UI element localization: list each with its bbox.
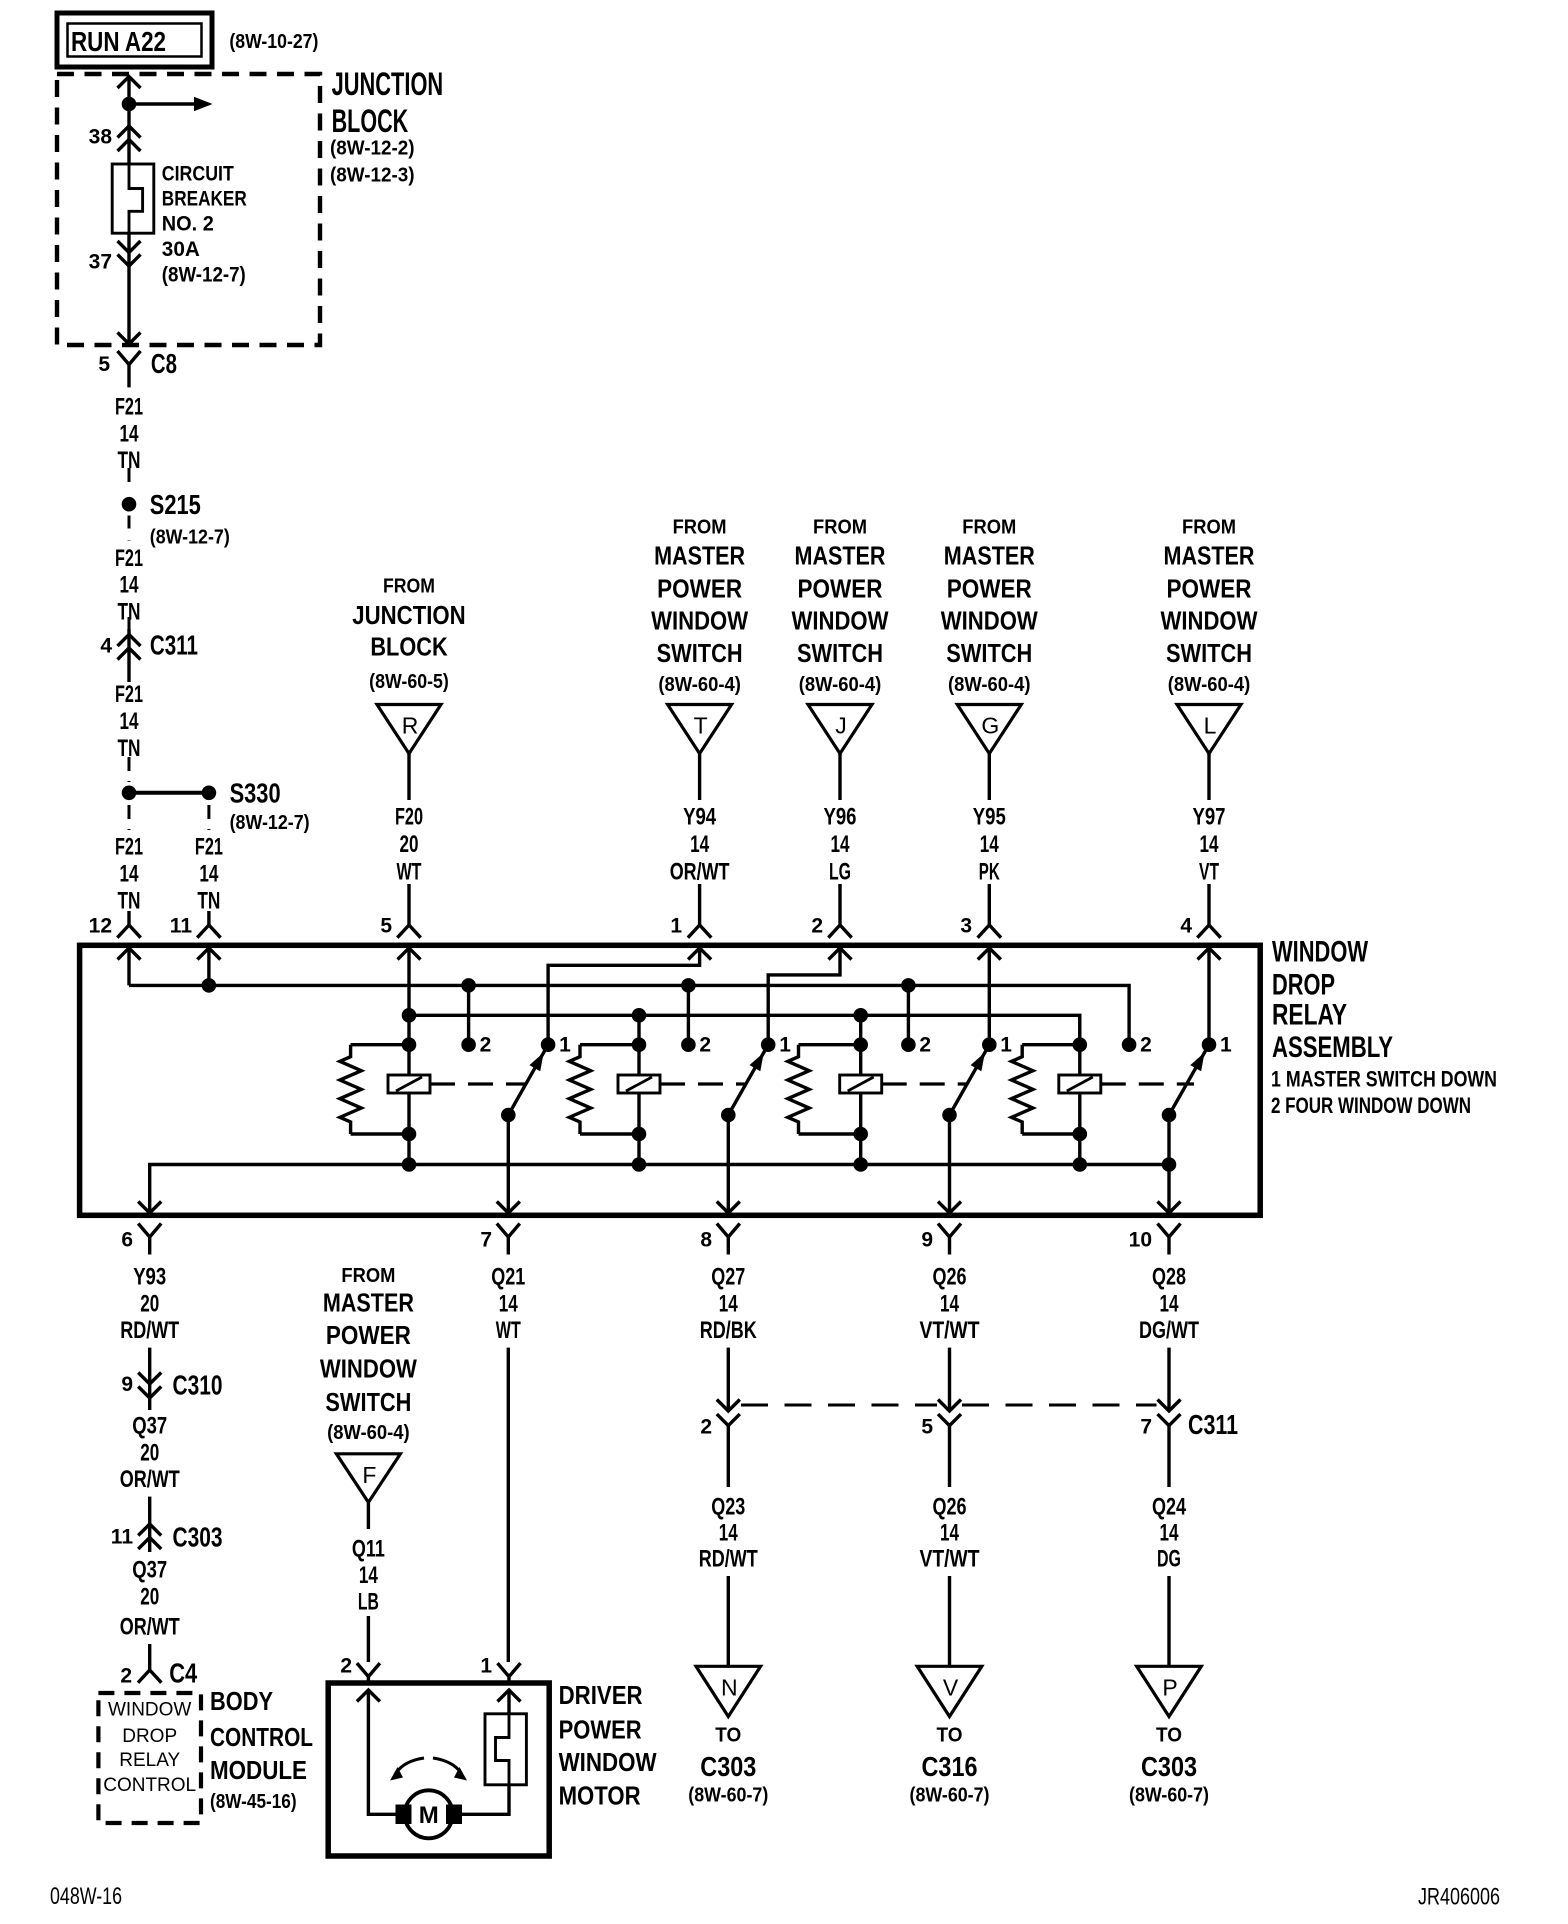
relay 4 mechanical link (dashed) <box>1101 1082 1194 1085</box>
relay box pin 9 connector at bottom edge <box>938 1224 961 1238</box>
circuit breaker CB2 box <box>112 164 154 233</box>
svg-text:C303: C303 <box>173 1522 223 1553</box>
svg-text:1: 1 <box>779 1034 791 1057</box>
wire relay 1 switch common to bottom pin <box>507 1115 510 1213</box>
resistor relay 4 coil suppression <box>1022 1043 1080 1046</box>
svg-text:14: 14 <box>120 572 139 599</box>
svg-text:2: 2 <box>340 1655 352 1678</box>
destination arrow P <box>1137 1666 1202 1716</box>
connector C311 pin 7 <box>1158 1400 1181 1412</box>
svg-text:TO: TO <box>937 1725 963 1747</box>
svg-text:Y97: Y97 <box>1193 804 1226 831</box>
svg-text:14: 14 <box>359 1562 378 1589</box>
svg-text:14: 14 <box>199 861 218 888</box>
svg-text:1: 1 <box>559 1034 571 1057</box>
svg-text:7: 7 <box>1140 1416 1152 1439</box>
relay 2 switch arm <box>728 1045 768 1115</box>
svg-text:TN: TN <box>118 888 141 915</box>
body control module window drop relay control box (dashed) <box>98 1693 201 1823</box>
relay 3 mechanical link (dashed) <box>882 1082 968 1085</box>
svg-text:14: 14 <box>120 420 139 447</box>
svg-text:VT/WT: VT/WT <box>920 1546 980 1573</box>
resistor relay 1 coil suppression <box>351 1043 409 1046</box>
svg-text:WINDOW: WINDOW <box>792 606 889 636</box>
svg-text:OR/WT: OR/WT <box>120 1614 180 1641</box>
svg-text:(8W-60-4): (8W-60-4) <box>658 674 741 696</box>
svg-text:RD/BK: RD/BK <box>700 1317 757 1344</box>
wire relay 4 switch common to bottom pin <box>1167 1115 1170 1213</box>
svg-text:PK: PK <box>979 859 1000 886</box>
bus B horizontal (coil feed from pin 5) <box>409 1015 1080 1044</box>
svg-text:C316: C316 <box>922 1751 978 1782</box>
svg-text:(8W-60-5): (8W-60-5) <box>369 671 449 693</box>
junction dot relay 3 coil bottom <box>853 1127 868 1142</box>
resistor relay 2 coil suppression <box>580 1043 639 1046</box>
relay box pin 7 connector at bottom edge <box>497 1224 520 1238</box>
source arrow R triangle <box>377 705 441 754</box>
svg-text:MASTER: MASTER <box>1164 541 1255 571</box>
svg-text:2: 2 <box>120 1665 132 1688</box>
bus D horizontal (coil common) <box>150 1165 1169 1214</box>
destination arrow V <box>917 1666 982 1716</box>
connector C8 <box>118 351 141 365</box>
svg-text:2: 2 <box>700 1416 712 1439</box>
junction dot bus A stub relay 1 terminal 2 <box>461 978 476 993</box>
junction dot inside junction block <box>122 97 137 112</box>
relay box pin 11 connector at top edge <box>197 925 220 938</box>
junction dot relay 3 on bus D <box>853 1157 868 1172</box>
svg-text:5: 5 <box>380 915 392 938</box>
wire F21 14 TN from S215 to C311 <box>128 516 131 542</box>
relay 1 switch arm <box>508 1045 548 1115</box>
relay 1 switch common dot <box>501 1108 516 1123</box>
svg-text:RELAY: RELAY <box>119 1750 180 1771</box>
svg-text:WINDOW: WINDOW <box>1272 936 1368 969</box>
relay 4 coil box <box>1059 1075 1101 1093</box>
svg-text:BODY: BODY <box>210 1686 273 1716</box>
svg-text:Q28: Q28 <box>1152 1264 1186 1291</box>
svg-text:JUNCTION: JUNCTION <box>332 66 444 102</box>
relay 1 terminal 1 dot <box>541 1037 556 1052</box>
svg-text:(8W-12-7): (8W-12-7) <box>150 527 230 549</box>
svg-text:3: 3 <box>960 915 972 938</box>
wire F21 14 TN from S330 to pin 12 <box>128 805 131 830</box>
svg-text:S330: S330 <box>230 777 281 808</box>
relay box pin 8 connector at bottom edge <box>717 1224 740 1238</box>
svg-text:FROM: FROM <box>962 517 1016 539</box>
svg-text:BREAKER: BREAKER <box>162 188 247 211</box>
destination arrow N <box>696 1666 761 1716</box>
svg-text:POWER: POWER <box>1167 574 1252 604</box>
svg-text:38: 38 <box>89 126 113 149</box>
svg-text:CIRCUIT: CIRCUIT <box>162 163 234 186</box>
relay 2 mechanical link (dashed) <box>660 1082 747 1085</box>
junction dot bus B relay 3 <box>853 1008 868 1023</box>
svg-text:20: 20 <box>400 831 419 858</box>
svg-text:(8W-12-7): (8W-12-7) <box>230 812 310 834</box>
svg-text:14: 14 <box>1200 831 1219 858</box>
source arrow G triangle <box>957 705 1021 754</box>
relay 3 switch common dot <box>942 1108 957 1123</box>
svg-text:(8W-12-2): (8W-12-2) <box>330 137 415 159</box>
resistor relay 3 coil suppression <box>799 1043 861 1046</box>
junction dot bus B relay 1 (pin 5) <box>402 1008 417 1023</box>
relay box pin 4 connector at top edge <box>1197 925 1220 938</box>
svg-text:2: 2 <box>1140 1034 1152 1057</box>
junction dot bus D end at pin 10 wire <box>1162 1157 1177 1172</box>
wire relay 3 coil feed from bus B <box>859 1015 862 1164</box>
svg-text:F21: F21 <box>195 834 223 861</box>
bus A horizontal (battery feed) <box>129 985 1129 1044</box>
wire F20 20 WT from R to pin 5 <box>407 754 410 800</box>
splice S215 <box>122 497 137 512</box>
svg-text:5: 5 <box>98 353 110 376</box>
svg-text:LG: LG <box>829 859 851 886</box>
svg-text:RELAY: RELAY <box>1272 999 1347 1032</box>
svg-text:MASTER: MASTER <box>795 541 886 571</box>
svg-text:Y96: Y96 <box>824 804 857 831</box>
svg-text:P: P <box>1162 1674 1177 1700</box>
svg-text:C311: C311 <box>150 630 198 661</box>
junction dot relay 1 coil top <box>402 1037 417 1052</box>
svg-text:MASTER: MASTER <box>323 1287 414 1317</box>
svg-text:J: J <box>835 713 847 739</box>
svg-text:WT: WT <box>496 1317 521 1344</box>
relay 3 terminal 2 dot <box>901 1037 916 1052</box>
relay box pin 10 connector at bottom edge <box>1158 1224 1181 1238</box>
driver power window motor box <box>328 1683 549 1856</box>
svg-text:5: 5 <box>921 1416 933 1439</box>
junction dot relay 1 on bus D <box>402 1157 417 1172</box>
svg-text:Y93: Y93 <box>133 1264 166 1291</box>
source arrow L triangle <box>1177 705 1241 754</box>
junction dot relay 3 coil top <box>853 1037 868 1052</box>
svg-text:F21: F21 <box>115 545 143 572</box>
svg-text:1: 1 <box>1220 1034 1232 1057</box>
wire Q11 14 LB from F to motor pin 2 <box>367 1502 370 1529</box>
svg-text:BLOCK: BLOCK <box>332 103 409 139</box>
node RUN A22 fuse feed box <box>57 13 212 67</box>
svg-text:11: 11 <box>111 1526 134 1549</box>
relay 2 switch common dot <box>721 1108 736 1123</box>
junction dot bus B relay 2 <box>632 1008 647 1023</box>
svg-text:Q26: Q26 <box>933 1264 967 1291</box>
svg-text:(8W-60-4): (8W-60-4) <box>327 1422 410 1444</box>
relay 2 coil box <box>618 1075 660 1093</box>
svg-text:RUN A22: RUN A22 <box>71 26 166 57</box>
svg-text:(8W-12-7): (8W-12-7) <box>162 264 246 287</box>
svg-text:1: 1 <box>480 1655 492 1678</box>
svg-text:1: 1 <box>670 915 682 938</box>
relay 3 coil box <box>840 1075 882 1093</box>
svg-text:Q37: Q37 <box>132 1413 167 1440</box>
svg-text:(8W-60-7): (8W-60-7) <box>688 1784 768 1806</box>
wire pin 11 stem <box>207 948 210 985</box>
svg-text:(8W-60-7): (8W-60-7) <box>1129 1784 1209 1806</box>
source arrow F triangle <box>336 1454 400 1503</box>
wire relay 2 switch common to bottom pin <box>727 1115 730 1213</box>
junction dot bus A stub relay 2 terminal 2 <box>681 978 696 993</box>
relay 2 terminal 2 dot <box>681 1037 696 1052</box>
svg-text:2: 2 <box>919 1034 931 1057</box>
relay 1 coil box <box>388 1075 430 1093</box>
circuit breaker CB2 element <box>129 164 143 233</box>
svg-text:4: 4 <box>1180 915 1192 938</box>
connector C311 pin 2 <box>717 1400 740 1412</box>
connector C4 pin 2 <box>138 1670 161 1683</box>
wire Y97 14 VT from L to relay box <box>1207 754 1210 800</box>
motor M symbol <box>405 1790 453 1838</box>
junction dot relay 4 on bus D <box>1073 1157 1088 1172</box>
svg-text:(8W-60-4): (8W-60-4) <box>1168 674 1251 696</box>
junction dot relay 2 on bus D <box>632 1157 647 1172</box>
connector 37 double chevron <box>118 241 141 253</box>
svg-text:VT: VT <box>1199 859 1219 886</box>
svg-text:TO: TO <box>1156 1725 1182 1747</box>
source arrow J triangle <box>808 705 872 754</box>
svg-text:14: 14 <box>980 831 999 858</box>
svg-text:NO. 2: NO. 2 <box>162 213 214 236</box>
relay box pin 3 connector at top edge <box>978 925 1001 938</box>
relay 3 terminal 1 dot <box>982 1037 997 1052</box>
svg-text:C310: C310 <box>173 1370 223 1401</box>
svg-text:M: M <box>419 1802 439 1829</box>
svg-text:6: 6 <box>121 1229 133 1252</box>
svg-text:WINDOW: WINDOW <box>941 606 1038 636</box>
junction dot relay 4 coil bottom <box>1073 1127 1088 1142</box>
svg-text:TO: TO <box>715 1725 741 1747</box>
svg-text:2: 2 <box>699 1034 711 1057</box>
svg-text:DG/WT: DG/WT <box>1139 1317 1199 1344</box>
relay box pin 5 connector at top edge <box>397 925 420 938</box>
svg-text:F21: F21 <box>115 681 143 708</box>
junction block boundary (dashed) <box>57 74 320 345</box>
svg-text:37: 37 <box>89 251 112 274</box>
svg-text:Q21: Q21 <box>491 1264 525 1291</box>
svg-text:FROM: FROM <box>813 517 867 539</box>
connector chevron at junction block top edge <box>118 77 141 89</box>
svg-text:9: 9 <box>921 1229 933 1252</box>
svg-text:DRIVER: DRIVER <box>559 1680 643 1710</box>
svg-text:20: 20 <box>140 1439 159 1466</box>
wire circuit breaker to C8 <box>127 233 130 344</box>
svg-text:F20: F20 <box>395 804 423 831</box>
motor thermal breaker box <box>485 1714 526 1785</box>
svg-text:SWITCH: SWITCH <box>797 638 883 668</box>
svg-text:2: 2 <box>480 1034 492 1057</box>
svg-text:14: 14 <box>1160 1520 1179 1547</box>
svg-text:Y95: Y95 <box>973 804 1006 831</box>
svg-text:SWITCH: SWITCH <box>325 1387 411 1417</box>
svg-text:1 MASTER SWITCH DOWN: 1 MASTER SWITCH DOWN <box>1271 1067 1497 1092</box>
svg-text:WINDOW: WINDOW <box>320 1353 417 1383</box>
svg-text:Y94: Y94 <box>683 804 717 831</box>
connector C311 pin 5 <box>938 1400 961 1412</box>
svg-text:14: 14 <box>940 1520 959 1547</box>
svg-text:POWER: POWER <box>657 574 742 604</box>
svg-text:T: T <box>694 713 708 739</box>
connector 38 double chevron <box>118 126 141 138</box>
svg-text:(8W-10-27): (8W-10-27) <box>229 31 318 53</box>
svg-text:F21: F21 <box>115 834 143 861</box>
svg-text:OR/WT: OR/WT <box>120 1466 180 1493</box>
wire relay 4 coil feed from bus B <box>1078 1015 1081 1164</box>
svg-text:R: R <box>402 713 419 739</box>
svg-text:MASTER: MASTER <box>944 541 1035 571</box>
svg-text:RD/WT: RD/WT <box>120 1317 179 1344</box>
wire pin 4 feed to relay 4 terminal 1 <box>1207 948 1210 1045</box>
relay 1 mechanical link (dashed) <box>430 1082 527 1085</box>
relay 2 terminal 1 dot <box>761 1037 776 1052</box>
relay box pin 12 connector at top edge <box>117 925 140 938</box>
wire pin 2 feed to relay 2 terminal 1 <box>768 948 840 1045</box>
svg-text:POWER: POWER <box>798 574 883 604</box>
svg-text:CONTROL: CONTROL <box>103 1775 196 1796</box>
relay 4 switch common dot <box>1162 1108 1177 1123</box>
relay 1 terminal 2 dot <box>461 1037 476 1052</box>
svg-text:20: 20 <box>140 1291 159 1318</box>
junction dot pin 11 on bus A <box>202 978 217 993</box>
svg-text:WINDOW: WINDOW <box>108 1699 191 1720</box>
chevron pin 6 at bottom edge <box>138 1202 161 1214</box>
motor rotation arrows <box>396 1758 424 1773</box>
wire relay 2 coil feed from bus B <box>637 1015 640 1164</box>
svg-text:7: 7 <box>480 1229 492 1252</box>
wire pin 1 feed to relay 1 terminal 1 <box>548 948 700 1045</box>
svg-text:Q23: Q23 <box>711 1494 745 1521</box>
svg-text:(8W-60-7): (8W-60-7) <box>910 1784 990 1806</box>
svg-text:14: 14 <box>940 1291 959 1318</box>
svg-text:WINDOW: WINDOW <box>651 606 748 636</box>
svg-text:12: 12 <box>89 915 112 938</box>
svg-text:C303: C303 <box>1141 1751 1197 1782</box>
wire pin 12 stem to bus A <box>127 948 130 985</box>
junction dot relay 1 coil bottom <box>402 1127 417 1142</box>
svg-text:Q26: Q26 <box>933 1494 967 1521</box>
junction dot relay 2 coil top <box>632 1037 647 1052</box>
splice S330 <box>122 786 137 801</box>
svg-text:1: 1 <box>1000 1034 1012 1057</box>
svg-text:MOTOR: MOTOR <box>559 1781 641 1811</box>
svg-text:30A: 30A <box>162 238 200 261</box>
svg-text:C8: C8 <box>151 348 177 379</box>
svg-text:DG: DG <box>1157 1546 1181 1573</box>
source arrow T triangle <box>668 705 732 754</box>
wire pin 3 feed to relay 3 terminal 1 <box>988 948 991 1045</box>
relay 4 terminal 2 dot <box>1122 1037 1137 1052</box>
motor pin 2 connector <box>357 1663 380 1677</box>
svg-text:ASSEMBLY: ASSEMBLY <box>1272 1031 1393 1064</box>
svg-text:JUNCTION: JUNCTION <box>352 600 465 630</box>
wire F21 14 TN from S330 to pin 11 <box>207 805 210 830</box>
svg-text:S215: S215 <box>150 489 201 520</box>
svg-text:FROM: FROM <box>383 576 435 598</box>
svg-text:LB: LB <box>358 1589 379 1616</box>
svg-text:FROM: FROM <box>673 517 727 539</box>
svg-text:MASTER: MASTER <box>654 541 745 571</box>
svg-text:SWITCH: SWITCH <box>657 638 743 668</box>
svg-text:VT/WT: VT/WT <box>920 1317 980 1344</box>
svg-text:2: 2 <box>811 915 823 938</box>
svg-text:POWER: POWER <box>326 1320 411 1350</box>
relay box pin 2 connector at top edge <box>828 925 851 938</box>
svg-text:10: 10 <box>1129 1229 1152 1252</box>
svg-text:DROP: DROP <box>1272 969 1335 1002</box>
svg-text:FROM: FROM <box>1182 517 1236 539</box>
svg-text:14: 14 <box>120 861 139 888</box>
svg-text:F21: F21 <box>115 394 143 421</box>
svg-text:TN: TN <box>197 888 220 915</box>
relay box pin 1 connector at top edge <box>688 925 711 938</box>
svg-text:WINDOW: WINDOW <box>559 1747 657 1777</box>
svg-text:8: 8 <box>700 1229 712 1252</box>
svg-text:14: 14 <box>719 1291 738 1318</box>
svg-text:C4: C4 <box>169 1658 197 1689</box>
svg-text:14: 14 <box>499 1291 518 1318</box>
svg-text:11: 11 <box>170 915 193 938</box>
svg-text:OR/WT: OR/WT <box>670 859 730 886</box>
wire Y95 14 PK from G to relay box <box>988 754 991 800</box>
motor thermal breaker element <box>496 1714 510 1785</box>
svg-text:V: V <box>943 1674 959 1700</box>
wire Y94 14 OR/WT from T to relay box <box>698 754 701 800</box>
svg-text:Q11: Q11 <box>352 1536 385 1563</box>
svg-text:C303: C303 <box>700 1751 756 1782</box>
svg-text:(8W-12-3): (8W-12-3) <box>330 164 415 186</box>
svg-text:14: 14 <box>690 831 709 858</box>
wire RUN A22 feed into junction block <box>127 77 130 165</box>
svg-text:(8W-60-4): (8W-60-4) <box>948 674 1031 696</box>
svg-text:WT: WT <box>397 859 422 886</box>
connector chevron at junction block bottom edge <box>118 333 141 345</box>
svg-text:G: G <box>981 713 999 739</box>
svg-text:SWITCH: SWITCH <box>946 638 1032 668</box>
svg-text:CONTROL: CONTROL <box>210 1722 313 1752</box>
svg-text:L: L <box>1204 713 1217 739</box>
dashed connector line C311 row <box>741 1404 937 1407</box>
svg-text:14: 14 <box>831 831 850 858</box>
wire pin 5 stem through relay 1 coil <box>407 948 410 1165</box>
svg-text:FROM: FROM <box>341 1265 395 1287</box>
svg-text:4: 4 <box>100 635 112 658</box>
svg-text:DROP: DROP <box>122 1726 177 1747</box>
svg-text:Q27: Q27 <box>711 1264 745 1291</box>
svg-text:N: N <box>721 1674 738 1700</box>
svg-text:Q24: Q24 <box>1152 1494 1186 1521</box>
arrow branch to other circuits <box>129 102 194 105</box>
svg-text:C311: C311 <box>1188 1409 1238 1440</box>
wire Y96 14 LG from J to relay box <box>838 754 841 800</box>
svg-text:JR406006: JR406006 <box>1418 1884 1500 1911</box>
svg-text:(8W-45-16): (8W-45-16) <box>210 1791 297 1813</box>
junction dot relay 4 coil top <box>1073 1037 1088 1052</box>
svg-text:RD/WT: RD/WT <box>699 1546 758 1573</box>
svg-text:POWER: POWER <box>559 1715 642 1745</box>
svg-text:048W-16: 048W-16 <box>50 1883 122 1910</box>
relay 3 switch arm <box>950 1045 990 1115</box>
svg-text:POWER: POWER <box>947 574 1032 604</box>
svg-text:SWITCH: SWITCH <box>1166 638 1252 668</box>
relay box pin 6 connector at bottom edge <box>138 1224 161 1238</box>
svg-text:(8W-60-4): (8W-60-4) <box>799 674 882 696</box>
svg-text:14: 14 <box>120 708 139 735</box>
wire motor pin 2 to motor terminal <box>368 1690 395 1814</box>
svg-text:2 FOUR WINDOW DOWN: 2 FOUR WINDOW DOWN <box>1271 1093 1471 1118</box>
svg-text:WINDOW: WINDOW <box>1161 606 1258 636</box>
wire relay 3 switch common to bottom pin <box>948 1115 951 1213</box>
svg-text:14: 14 <box>719 1520 738 1547</box>
wire breaker to motor terminal <box>462 1785 509 1815</box>
